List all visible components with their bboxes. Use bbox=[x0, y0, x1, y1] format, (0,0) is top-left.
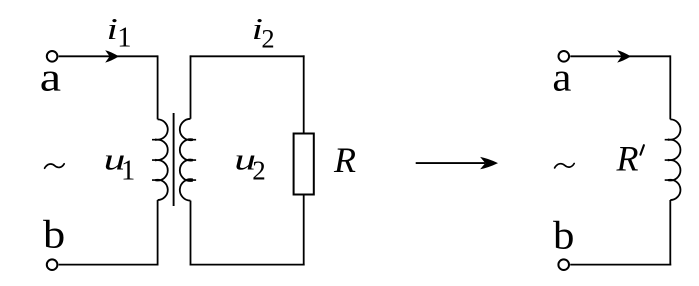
svg-text:a: a bbox=[40, 55, 61, 99]
prime mark of R' bbox=[640, 145, 644, 155]
wire b to primary bottom bbox=[59, 264, 159, 266]
AC source symbol ~ (right) bbox=[555, 164, 575, 168]
svg-text:1: 1 bbox=[117, 22, 131, 53]
label a (right terminal) bbox=[552, 55, 571, 99]
wire secondary vertical top bbox=[190, 55, 192, 118]
svg-text:2: 2 bbox=[261, 24, 274, 54]
wire b to R' bottom bbox=[570, 264, 671, 266]
wire a to R' top bbox=[570, 55, 670, 57]
inductor R' winding bbox=[669, 119, 681, 200]
label u2 voltage bbox=[234, 143, 256, 177]
wire R' vertical bottom bbox=[669, 200, 671, 265]
label i2 current bbox=[252, 11, 263, 45]
wire resistor bottom lead bbox=[303, 195, 305, 266]
label b (right terminal) bbox=[553, 213, 574, 257]
svg-text:1: 1 bbox=[121, 156, 135, 187]
svg-text:R: R bbox=[333, 140, 356, 180]
svg-text:a: a bbox=[552, 55, 571, 99]
label u1 voltage bbox=[104, 143, 126, 177]
transformation arrow head bbox=[480, 157, 498, 169]
svg-text:b: b bbox=[553, 213, 574, 257]
svg-text:i: i bbox=[107, 11, 118, 45]
transformer core bbox=[173, 113, 175, 206]
current arrow (right circuit) head bbox=[617, 50, 631, 62]
wire primary vertical top bbox=[157, 55, 159, 119]
terminal b (right) bbox=[558, 259, 569, 270]
AC source symbol ~ (left) bbox=[45, 164, 65, 168]
transformation arrow shaft bbox=[416, 162, 485, 164]
terminal b (left) bbox=[47, 259, 58, 270]
inductor secondary winding L2 bbox=[180, 119, 192, 201]
wire secondary bottom rail bbox=[190, 264, 305, 266]
label i1 current bbox=[107, 11, 118, 45]
svg-text:2: 2 bbox=[252, 155, 265, 185]
terminal a (left) bbox=[47, 51, 58, 62]
wire secondary top rail bbox=[190, 55, 305, 57]
wire a to primary top bbox=[59, 55, 158, 57]
wire resistor top lead bbox=[303, 55, 305, 133]
cusp ticks of R' winding bbox=[665, 140, 669, 180]
svg-text:R: R bbox=[616, 138, 639, 178]
resistor R body bbox=[294, 134, 314, 195]
svg-text:b: b bbox=[43, 212, 65, 256]
wire secondary vertical bottom bbox=[190, 201, 192, 266]
label b (left terminal) bbox=[43, 212, 65, 256]
cusp ticks of L2 bbox=[192, 140, 196, 180]
inductor primary winding L1 bbox=[156, 119, 168, 200]
cusp ticks of L1 bbox=[152, 140, 156, 180]
wire R' vertical top bbox=[669, 55, 671, 119]
terminal a (right) bbox=[559, 51, 570, 62]
label a (left terminal) bbox=[40, 55, 61, 99]
wire primary vertical bottom bbox=[157, 200, 159, 265]
current arrow i1 head bbox=[105, 50, 119, 62]
